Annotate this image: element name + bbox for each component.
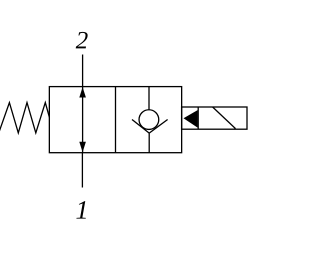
port label 2	[76, 32, 88, 49]
check valve upper line	[148, 87, 150, 110]
port label 1	[76, 201, 85, 218]
flow path line	[82, 87, 84, 153]
port 2 line	[82, 55, 84, 87]
arrowhead up	[79, 87, 86, 98]
solenoid box	[182, 107, 247, 129]
check valve ball circle	[139, 110, 159, 130]
check valve lower line	[148, 133, 150, 153]
check valve seat right	[149, 120, 167, 134]
solenoid coil diagonal	[213, 107, 236, 129]
spring	[0, 103, 49, 133]
check valve seat left	[132, 120, 149, 134]
solenoid actuation triangle	[184, 110, 198, 128]
position divider	[115, 87, 117, 153]
arrowhead down	[79, 142, 86, 153]
solenoid divider	[197, 107, 199, 129]
port 1 line	[81, 153, 83, 188]
valve body outline	[49, 87, 181, 153]
